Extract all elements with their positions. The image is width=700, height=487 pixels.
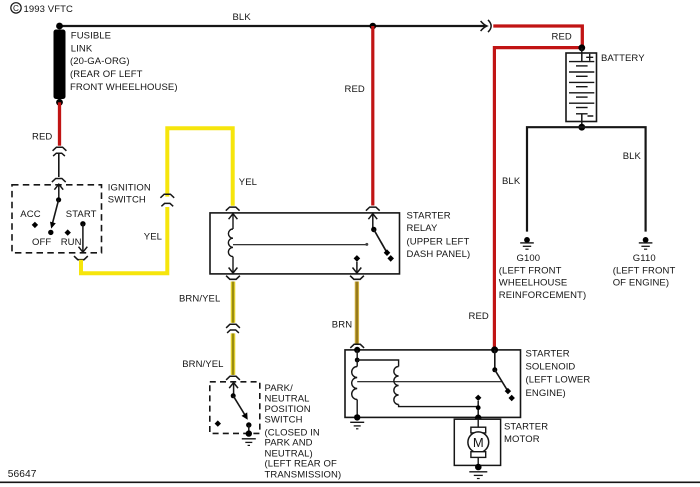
svg-text:DASH PANEL): DASH PANEL) <box>407 249 471 260</box>
connector below ignition switch <box>74 256 88 260</box>
svg-text:RELAY: RELAY <box>407 223 439 234</box>
svg-text:(20-GA-ORG): (20-GA-ORG) <box>70 56 130 67</box>
svg-text:STARTER: STARTER <box>504 422 548 433</box>
solenoid contact bar wire <box>357 381 502 383</box>
connector below relay coil <box>226 276 240 280</box>
node battery positive dot <box>578 44 585 51</box>
node START contact dot <box>80 221 85 226</box>
svg-text:G100: G100 <box>517 253 541 264</box>
battery plus terminal label <box>586 54 593 61</box>
terminal arrow into ignition switch <box>54 184 63 190</box>
solenoid internal wire to coils <box>356 350 358 360</box>
node fusible link bottom dot <box>56 99 63 106</box>
svg-text:RED: RED <box>469 311 489 322</box>
wire BRN relay to solenoid <box>355 282 359 344</box>
solenoid pull-in coil to motor terminal wire <box>399 405 479 407</box>
ground solenoid <box>350 422 364 429</box>
svg-text:BLK: BLK <box>233 12 252 23</box>
wire RED battery to solenoid feed <box>494 48 580 349</box>
park/neutral position switch dashed box <box>210 382 260 434</box>
relay output terminal diamond <box>354 255 361 262</box>
svg-text:(LEFT FRONT: (LEFT FRONT <box>499 266 562 277</box>
svg-text:FUSIBLE: FUSIBLE <box>71 30 111 41</box>
node solenoid ground dot <box>354 414 360 420</box>
svg-text:ACC: ACC <box>20 209 40 220</box>
node solenoid to motor dot <box>475 415 482 422</box>
wire BRN/YEL relay to connector <box>231 282 236 323</box>
ignition switch wiper <box>50 184 61 228</box>
svg-text:NEUTRAL: NEUTRAL <box>265 394 310 405</box>
relay coil terminal arrow <box>229 214 238 220</box>
svg-text:RED: RED <box>552 32 572 43</box>
solenoid switch <box>492 350 515 401</box>
starter motor M1 <box>468 419 489 465</box>
relay switch <box>371 214 394 262</box>
svg-text:M: M <box>473 435 484 450</box>
svg-text:MOTOR: MOTOR <box>504 434 540 445</box>
ground G110 <box>639 237 653 249</box>
label G100 <box>499 253 586 301</box>
node relay contact line end <box>365 243 368 246</box>
connector at ignition switch terminal <box>52 179 66 183</box>
solenoid pull-in coil feed wire <box>357 360 398 367</box>
svg-text:(UPPER LEFT: (UPPER LEFT <box>407 236 470 247</box>
node solenoid motor junction dot <box>476 405 481 410</box>
solenoid pull-in coil <box>394 367 399 405</box>
relay coil bottom arrow <box>229 268 238 274</box>
starter motor box <box>454 419 500 465</box>
connector inline on red ignition feed <box>53 147 67 156</box>
svg-text:BLK: BLK <box>502 176 521 187</box>
node park switch second diamond <box>215 420 221 426</box>
label fusible link <box>70 30 178 92</box>
starter solenoid box <box>345 350 521 418</box>
relay switch terminal arrow <box>368 214 377 220</box>
ground park switch <box>242 439 256 446</box>
connector at solenoid terminal <box>350 344 364 348</box>
svg-text:IGNITION: IGNITION <box>108 182 151 193</box>
svg-text:OF ENGINE): OF ENGINE) <box>613 278 669 289</box>
svg-text:BRN/YEL: BRN/YEL <box>179 294 220 305</box>
svg-text:YEL: YEL <box>239 177 257 188</box>
relay output wire <box>356 262 358 273</box>
svg-text:RED: RED <box>345 84 365 95</box>
node solenoid RED terminal dot <box>491 346 498 353</box>
node RUN contact diamond <box>65 229 71 235</box>
solenoid motor terminal diamond <box>475 395 481 401</box>
ground G100 <box>520 237 534 249</box>
solenoid motor terminal wire <box>477 401 479 418</box>
label PARK NEUTRAL POSITION SWITCH <box>265 383 342 480</box>
node solenoid BRN terminal dot <box>354 347 360 353</box>
node battery negative dot <box>578 124 585 131</box>
wire YEL ignition to relay <box>81 207 167 273</box>
park switch terminal arrow <box>229 383 238 389</box>
relay output arrow <box>353 268 362 274</box>
relay internal wire coil to switch <box>233 244 367 246</box>
svg-text:SOLENOID: SOLENOID <box>526 361 576 372</box>
park switch wiper <box>231 383 248 420</box>
label IGNITION SWITCH <box>108 182 151 205</box>
svg-text:WHEELHOUSE: WHEELHOUSE <box>499 278 568 289</box>
svg-text:RUN: RUN <box>61 237 82 248</box>
svg-text:BATTERY: BATTERY <box>601 53 645 64</box>
connector at park switch terminal <box>226 376 240 380</box>
svg-text:FRONT WHEELHOUSE): FRONT WHEELHOUSE) <box>70 82 178 93</box>
svg-text:YEL: YEL <box>144 231 162 242</box>
ground starter motor <box>469 472 487 479</box>
wire RED fusible link to ignition <box>58 102 61 145</box>
ignition switch S1 dashed box <box>12 185 102 253</box>
wire BLK to ignition switch <box>58 153 60 177</box>
wire BLK battery to grounds <box>527 127 646 231</box>
battery B1 <box>566 48 597 127</box>
svg-text:BRN/YEL: BRN/YEL <box>182 359 223 370</box>
wire RED to battery <box>493 26 582 48</box>
node OFF contact dot <box>48 230 53 235</box>
svg-text:ENGINE): ENGINE) <box>526 388 566 399</box>
svg-text:(LEFT REAR OF: (LEFT REAR OF <box>265 459 337 470</box>
connector inline on BRN/YEL <box>226 324 240 333</box>
svg-text:BLK: BLK <box>623 151 642 162</box>
border bottom line <box>0 481 700 483</box>
terminal arrow out of ignition switch <box>79 247 88 253</box>
node park switch ground dot <box>246 430 252 436</box>
svg-text:BRN: BRN <box>332 320 352 331</box>
connector below relay output <box>350 276 364 280</box>
copyright symbol <box>11 3 73 15</box>
svg-text:RED: RED <box>32 132 52 143</box>
fusible link F1 <box>54 30 66 100</box>
svg-text:SWITCH: SWITCH <box>108 195 146 206</box>
svg-text:1993 VFTC: 1993 VFTC <box>24 4 74 15</box>
svg-text:SWITCH: SWITCH <box>265 415 303 426</box>
svg-text:(REAR OF LEFT: (REAR OF LEFT <box>70 69 143 80</box>
svg-text:STARTER: STARTER <box>407 210 451 221</box>
label STARTER RELAY <box>407 210 471 259</box>
node junction dot BLK/RED relay feed <box>370 23 377 30</box>
connector C100 inline on top wire <box>481 20 492 32</box>
node park switch contact dot <box>246 422 251 427</box>
svg-text:C: C <box>13 4 19 13</box>
svg-text:G110: G110 <box>633 253 656 264</box>
svg-text:(LEFT FRONT: (LEFT FRONT <box>613 266 676 277</box>
node ACC contact diamond <box>32 222 38 228</box>
battery minus terminal label <box>588 115 594 117</box>
svg-text:TRANSMISSION): TRANSMISSION) <box>265 469 342 480</box>
wire START to output <box>82 224 84 252</box>
svg-text:56647: 56647 <box>8 469 37 480</box>
connector at relay coil terminal <box>226 207 240 211</box>
relay coil <box>228 214 233 273</box>
wire park switch to ground <box>248 425 250 434</box>
node solenoid coil junction dot <box>355 358 360 363</box>
solenoid hold-in coil <box>352 360 358 417</box>
svg-text:REINFORCEMENT): REINFORCEMENT) <box>499 290 586 301</box>
svg-text:STARTER: STARTER <box>526 348 570 359</box>
svg-text:START: START <box>66 209 97 220</box>
svg-text:PARK AND: PARK AND <box>265 438 313 449</box>
label STARTER SOLENOID <box>526 348 591 398</box>
wire BLK top horizontal <box>60 25 487 27</box>
label STARTER MOTOR <box>504 422 548 445</box>
node motor ground dot <box>475 464 482 471</box>
svg-text:OFF: OFF <box>32 237 51 248</box>
connector at relay switch terminal <box>366 207 380 211</box>
svg-text:LINK: LINK <box>71 43 93 54</box>
label G110 <box>613 253 676 289</box>
connector inline on yellow wire <box>160 194 174 206</box>
node fusible link top dot <box>56 23 63 30</box>
starter relay K1 box <box>210 213 400 274</box>
svg-text:(LEFT LOWER: (LEFT LOWER <box>526 375 591 386</box>
wire RED junction to relay <box>371 26 374 206</box>
